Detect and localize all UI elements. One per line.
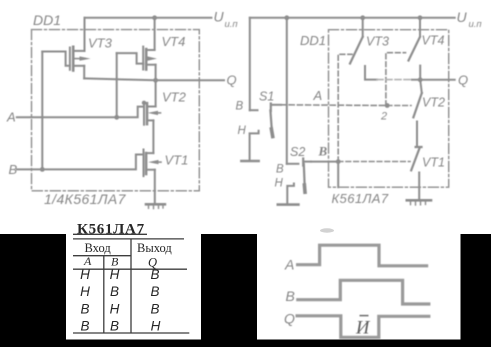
transistor VT1 (n-MOS) (144, 150, 162, 177)
wire Q line (right) (420, 79, 455, 81)
wire rail down to S2 (286, 18, 288, 164)
switch S1: low contact to ground (250, 131, 259, 160)
waveform A (296, 245, 428, 266)
svg-text:VT3: VT3 (88, 36, 113, 51)
svg-text:DD1: DD1 (300, 33, 326, 48)
svg-text:Н: Н (238, 125, 247, 137)
switch S2 blade (304, 164, 305, 192)
svg-text:1/4К561ЛА7: 1/4К561ЛА7 (44, 191, 127, 207)
black block bottom-left (0, 234, 66, 347)
svg-text:Н: Н (110, 267, 120, 282)
wire B up to VT3 gate (41, 52, 43, 170)
svg-text:VT1: VT1 (422, 156, 445, 170)
wire rail down to S1 (249, 18, 251, 110)
switch S2 pole (302, 159, 304, 166)
svg-text:Н: Н (110, 301, 120, 316)
wire VT4 gate lead (117, 53, 144, 64)
wire VT3 drain down to Q (83, 66, 85, 79)
svg-text:VT2: VT2 (422, 96, 445, 110)
svg-text:В: В (276, 164, 284, 176)
svg-text:VT3: VT3 (366, 35, 389, 49)
switch S1 blade (270, 111, 272, 137)
svg-text:В: В (318, 144, 328, 159)
dash-dot box DD1 (32, 30, 200, 191)
svg-text:Q: Q (458, 73, 468, 88)
label U power (left) (214, 9, 239, 31)
wire Q down to VT2 drain (155, 80, 157, 106)
table separator A/B (103, 256, 105, 333)
svg-text:Выход: Выход (137, 241, 172, 255)
svg-text:В: В (80, 319, 89, 334)
node: A junction dot (114, 115, 119, 120)
table top border (73, 238, 184, 240)
transistor VT3 (p-MOS) (70, 47, 91, 71)
label U power (right) (457, 9, 483, 30)
waveform Q (296, 316, 431, 338)
truth rows (80, 267, 161, 333)
scan smudge artifact (320, 228, 334, 232)
switch VT1 blade (411, 147, 421, 170)
svg-text:Н: Н (80, 267, 90, 282)
svg-text:S1: S1 (259, 90, 274, 104)
black strip bottom (0, 340, 491, 347)
node: Q junction dot (153, 78, 158, 83)
black block bottom-right (461, 234, 491, 347)
overline of I (360, 315, 369, 317)
wire VT4 drain down to Q (155, 65, 157, 81)
wire B line (S2 pole to coupling node) (311, 161, 338, 163)
black block bottom-middle (201, 234, 257, 347)
svg-text:В: В (110, 284, 119, 299)
wire B node down (337, 162, 339, 188)
svg-text:VT4: VT4 (422, 34, 445, 48)
wire rail to VT3 source (84, 18, 86, 51)
svg-text:и.п: и.п (469, 19, 483, 30)
ground (S1) (241, 160, 258, 163)
wire VT1 source to ground (154, 170, 156, 204)
svg-text:В: В (236, 101, 244, 113)
node: A coupling dot (385, 103, 390, 108)
coupling B up to VT3 (dashed) (338, 54, 352, 161)
svg-text:U: U (457, 9, 468, 25)
table mid border (73, 268, 187, 270)
wire VT3 bottom contact to Q bus (365, 66, 377, 80)
coupling A to VT2 (dashed) (387, 105, 411, 107)
svg-text:VT4: VT4 (162, 34, 186, 49)
wire input B line (17, 155, 144, 170)
svg-text:A: A (284, 256, 294, 272)
svg-text:К561ЛА7: К561ЛА7 (332, 191, 389, 206)
svg-text:В: В (150, 284, 159, 299)
node: rail dot VT3 (360, 15, 365, 20)
node: rail dot to S2 feed (284, 15, 289, 20)
node: rail dot VT4 (418, 15, 423, 20)
svg-text:В: В (110, 319, 119, 334)
switch S1: high contact lead (250, 109, 258, 111)
svg-text:А: А (83, 254, 92, 268)
svg-text:В: В (80, 301, 89, 316)
svg-text:S2: S2 (290, 145, 305, 159)
transistor VT4 (p-MOS) (143, 47, 157, 70)
svg-text:Q: Q (227, 73, 237, 88)
svg-text:И: И (355, 318, 371, 338)
svg-text:VT2: VT2 (162, 90, 187, 105)
ground (left schematic) (146, 204, 165, 208)
wire rail to VT4 source (154, 18, 156, 50)
wire VT2 bottom to VT1 top (416, 122, 418, 147)
switch VT4: top lead (419, 18, 421, 37)
svg-text:и.п: и.п (225, 19, 239, 30)
switch VT2: top lead (420, 80, 422, 93)
switch VT3: top lead (362, 18, 364, 37)
ground (VT1) (407, 200, 431, 205)
svg-text:В: В (150, 267, 159, 282)
switch VT4 blade (409, 37, 421, 61)
svg-text:Q: Q (284, 311, 295, 327)
dash-dot box DD1 (right) (329, 30, 449, 188)
svg-text:DD1: DD1 (33, 12, 61, 28)
switch VT2 blade (413, 93, 421, 117)
table header underline (Vhod) (73, 255, 131, 257)
svg-text:Н: Н (80, 284, 90, 299)
coupling A up to VT4 (dashed) (386, 53, 406, 106)
wire A up to VT4 gate (116, 53, 118, 117)
ground (S2) (278, 203, 299, 206)
table bottom border (73, 332, 189, 334)
svg-text:В: В (150, 301, 159, 316)
svg-text:Н: Н (275, 178, 284, 190)
switch S1 pole (270, 104, 272, 112)
svg-text:A: A (313, 88, 323, 103)
svg-text:Н: Н (151, 319, 161, 334)
svg-text:U: U (214, 9, 225, 25)
svg-text:B: B (286, 288, 295, 304)
power rail U=+V (left) (85, 17, 212, 19)
svg-text:VT1: VT1 (165, 153, 189, 168)
transistor VT2 (n-MOS) (142, 101, 161, 125)
wire input A line (17, 107, 144, 118)
wire VT2 source to VT1 drain (152, 120, 154, 153)
wire VT1 bottom to ground (418, 173, 420, 200)
table title underline (73, 233, 147, 235)
node: Q dot (right) (418, 77, 423, 82)
node: B junction dot (40, 167, 45, 172)
switch S2: low contact to ground (287, 184, 294, 204)
wire VT4 bottom contact (419, 66, 421, 80)
svg-text:2: 2 (380, 111, 387, 123)
power rail U=+V (right) (250, 17, 455, 19)
switch S2: high contact lead (287, 163, 299, 165)
switch VT3 blade (350, 37, 363, 64)
node: rail junction dot (152, 15, 157, 20)
node: B coupling dot (336, 159, 341, 164)
svg-text:К561ЛА7: К561ЛА7 (77, 222, 145, 238)
wire A line (dashed, S1 pole to coupling node) (281, 104, 387, 107)
svg-text:Вход: Вход (85, 241, 112, 255)
svg-text:A: A (6, 110, 16, 125)
wire B over to VT3 gate (42, 52, 70, 66)
table separator Vhod/Vyhod (130, 239, 132, 333)
coupling B to VT1 (dashed) (338, 161, 410, 163)
wire output Q line (left) (84, 78, 224, 80)
waveform B (296, 280, 430, 304)
